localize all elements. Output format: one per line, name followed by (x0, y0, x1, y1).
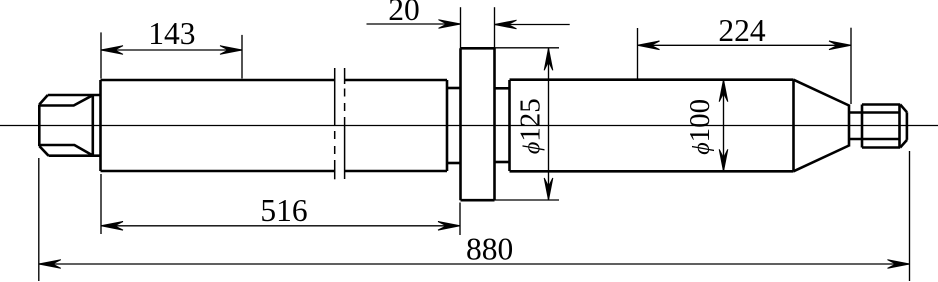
neck between flange and phi100 cylinder (495, 88, 510, 162)
dimension 224 (638, 28, 852, 104)
right neck + journal (849, 105, 907, 148)
main left cylinder (516 section) (101, 80, 448, 171)
svg-text:880: 880 (466, 232, 513, 267)
left journal outline (39, 95, 100, 156)
break lines (335, 68, 345, 179)
svg-text:ϕ100: ϕ100 (684, 99, 716, 155)
dimension 516 (101, 174, 460, 235)
flange (20 wide, dia 125) (461, 48, 495, 200)
dimension phi125 (495, 48, 560, 200)
svg-text:224: 224 (718, 13, 766, 48)
cone taper (794, 80, 850, 172)
svg-text:143: 143 (148, 16, 195, 51)
neck between cylinder and flange (447, 88, 461, 163)
svg-text:ϕ125: ϕ125 (515, 98, 547, 154)
svg-text:20: 20 (388, 0, 420, 27)
axis centerline (0, 125, 938, 127)
dimension 880 (39, 151, 910, 281)
dimension 20 (367, 7, 570, 48)
dimension phi100 (723, 80, 725, 172)
svg-text:516: 516 (260, 193, 307, 228)
phi100 cylinder (510, 80, 794, 172)
dimension 143 (101, 32, 242, 78)
